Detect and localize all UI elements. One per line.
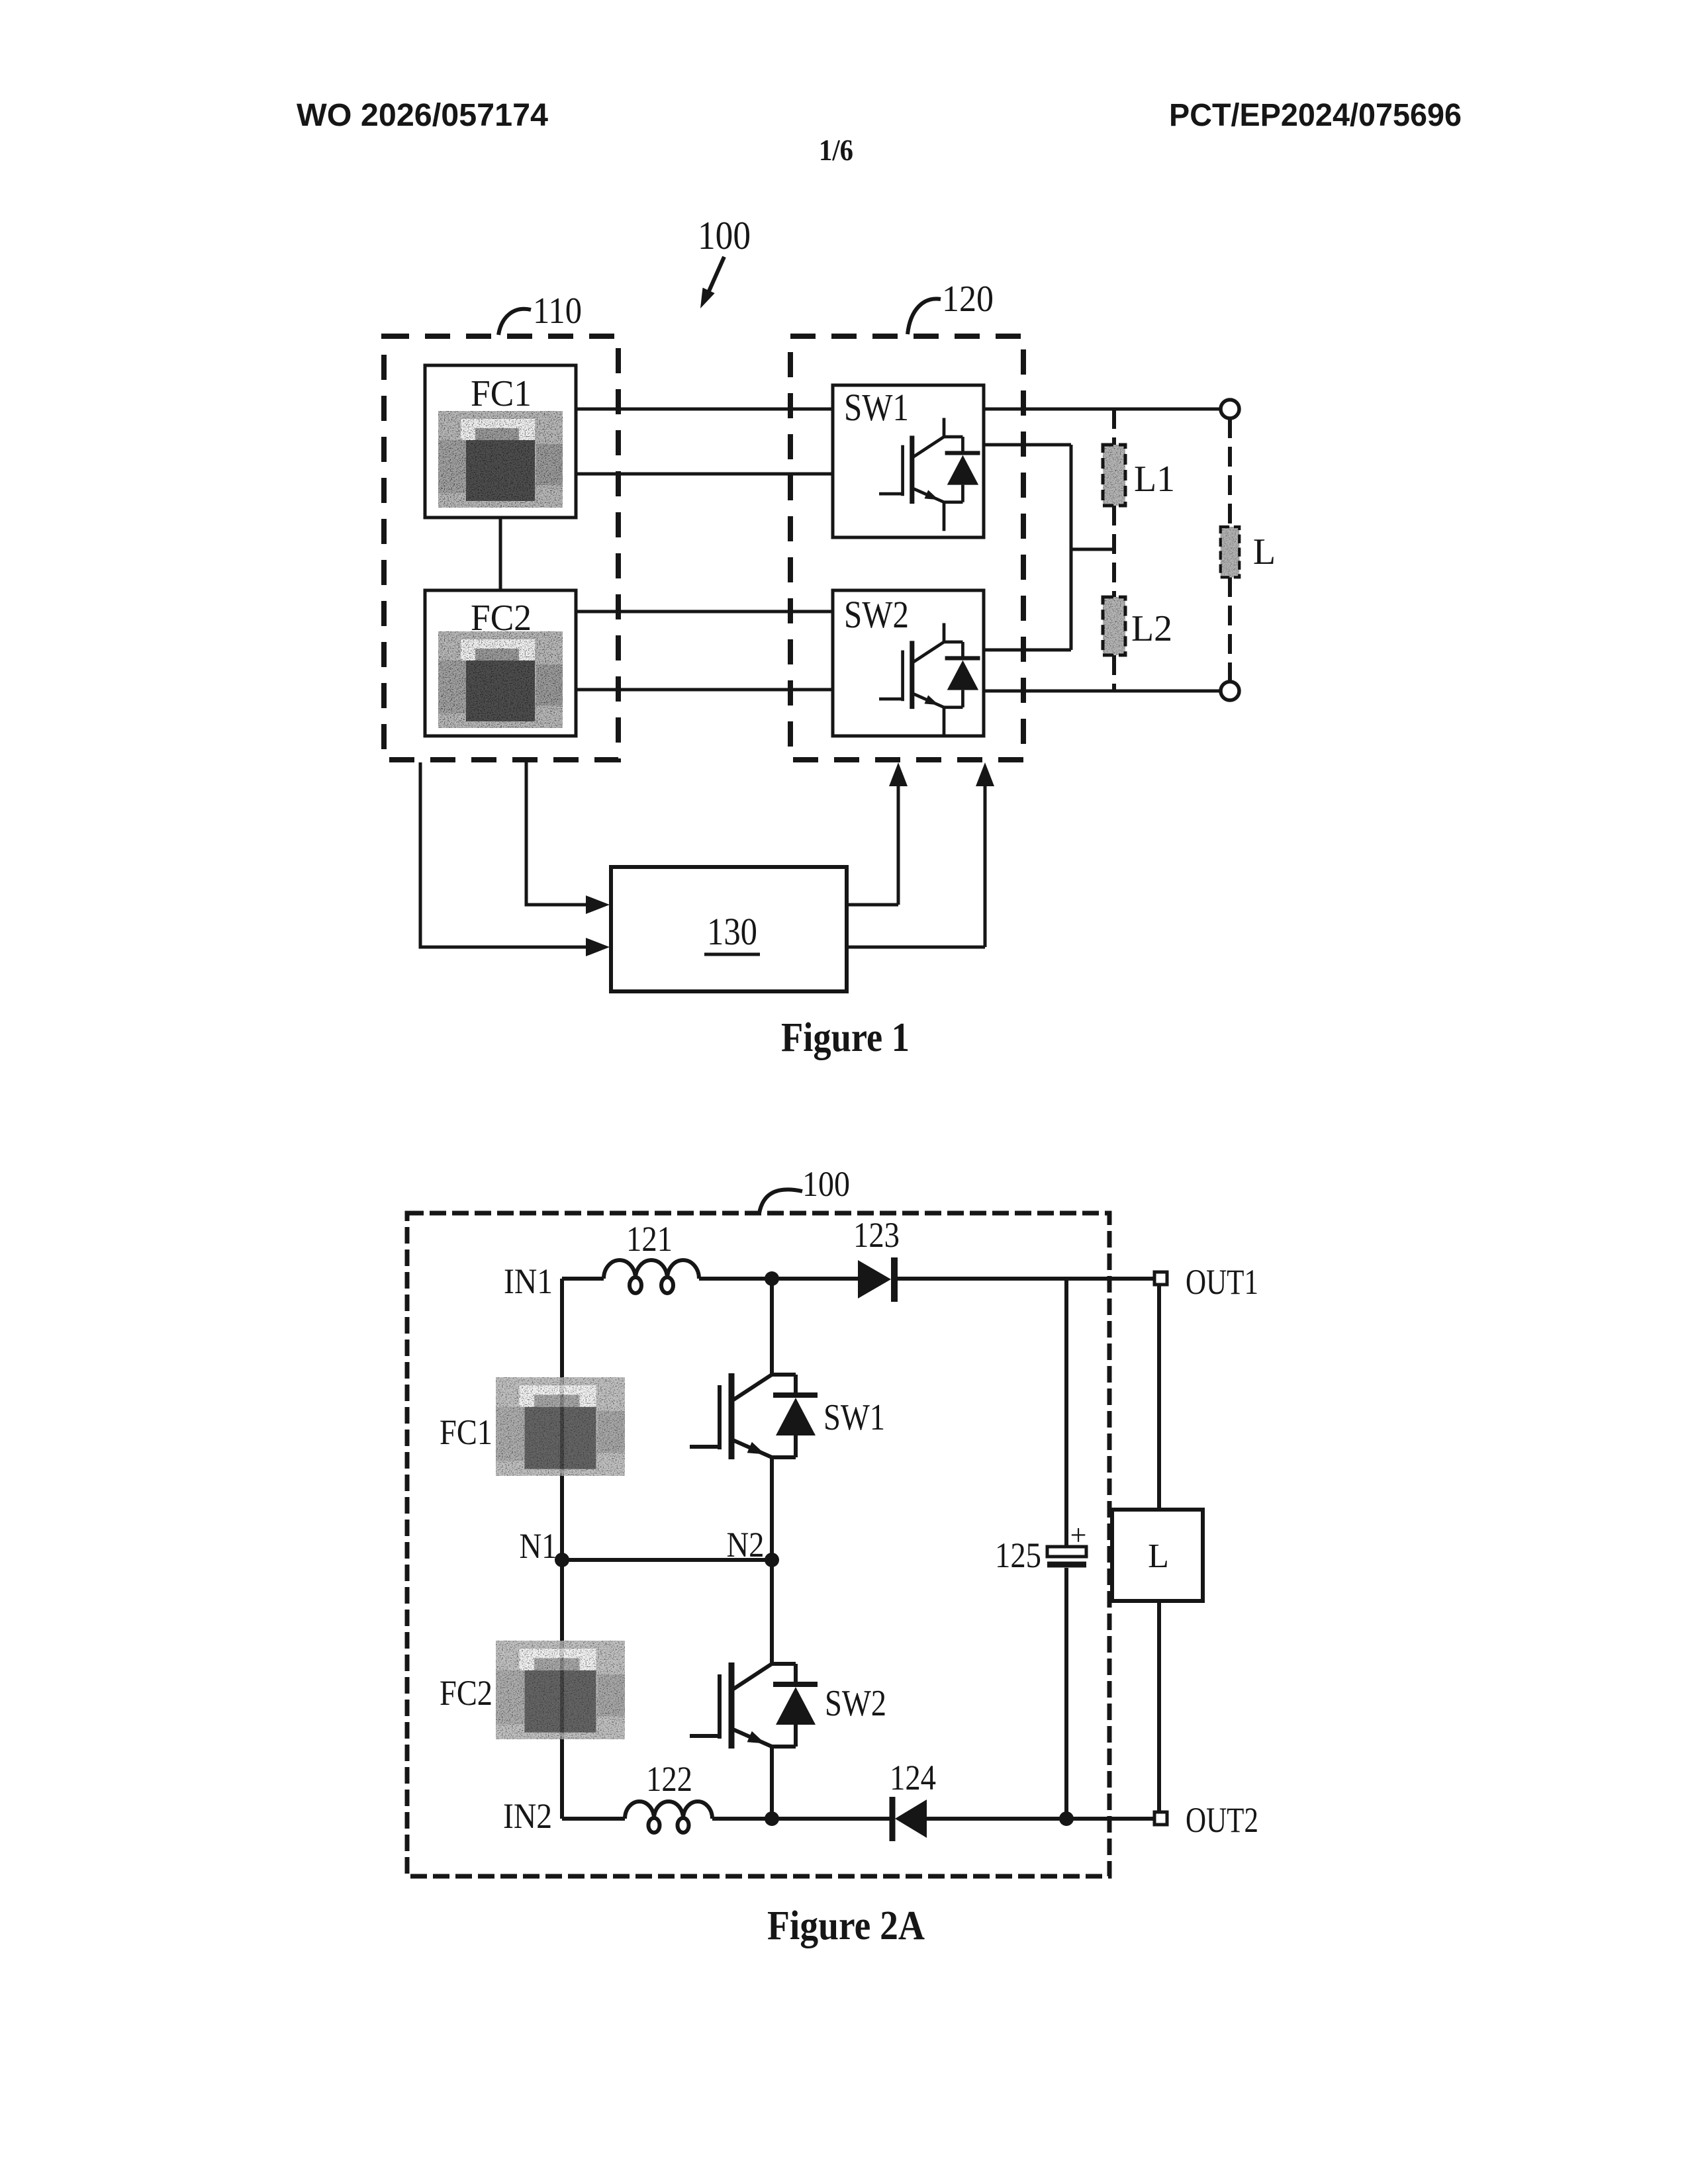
svg-text:WO 2026/057174: WO 2026/057174 bbox=[297, 98, 548, 133]
svg-text:OUT2: OUT2 bbox=[1186, 1800, 1258, 1840]
svg-text:124: 124 bbox=[890, 1758, 936, 1797]
svg-text:N1: N1 bbox=[520, 1526, 557, 1566]
svg-text:120: 120 bbox=[942, 279, 994, 320]
svg-text:122: 122 bbox=[646, 1759, 692, 1799]
svg-text:Figure 1: Figure 1 bbox=[781, 1015, 910, 1060]
svg-text:1/6: 1/6 bbox=[819, 133, 853, 167]
svg-text:130: 130 bbox=[707, 910, 757, 953]
svg-text:N2: N2 bbox=[727, 1525, 765, 1565]
svg-text:FC1: FC1 bbox=[440, 1412, 492, 1452]
svg-text:123: 123 bbox=[853, 1215, 900, 1255]
svg-text:FC2: FC2 bbox=[440, 1673, 492, 1713]
svg-text:IN1: IN1 bbox=[504, 1261, 553, 1301]
svg-text:100: 100 bbox=[698, 214, 751, 257]
svg-text:Figure 2A: Figure 2A bbox=[767, 1903, 925, 1948]
svg-text:FC1: FC1 bbox=[471, 373, 532, 414]
svg-text:SW2: SW2 bbox=[825, 1683, 886, 1724]
svg-text:OUT1: OUT1 bbox=[1186, 1262, 1258, 1302]
svg-text:SW1: SW1 bbox=[844, 386, 909, 429]
svg-text:FC2: FC2 bbox=[471, 598, 532, 639]
svg-text:SW2: SW2 bbox=[844, 593, 909, 636]
svg-text:100: 100 bbox=[802, 1164, 850, 1204]
svg-text:L2: L2 bbox=[1131, 608, 1172, 649]
svg-text:110: 110 bbox=[533, 291, 582, 332]
svg-text:PCT/EP2024/075696: PCT/EP2024/075696 bbox=[1169, 98, 1462, 133]
svg-text:L: L bbox=[1253, 531, 1276, 572]
svg-text:125: 125 bbox=[995, 1535, 1041, 1575]
svg-text:L: L bbox=[1148, 1537, 1169, 1575]
svg-text:IN2: IN2 bbox=[503, 1796, 552, 1836]
svg-text:+: + bbox=[1070, 1519, 1087, 1551]
svg-text:121: 121 bbox=[626, 1219, 673, 1259]
svg-text:L1: L1 bbox=[1134, 459, 1175, 500]
svg-text:SW1: SW1 bbox=[823, 1397, 885, 1438]
